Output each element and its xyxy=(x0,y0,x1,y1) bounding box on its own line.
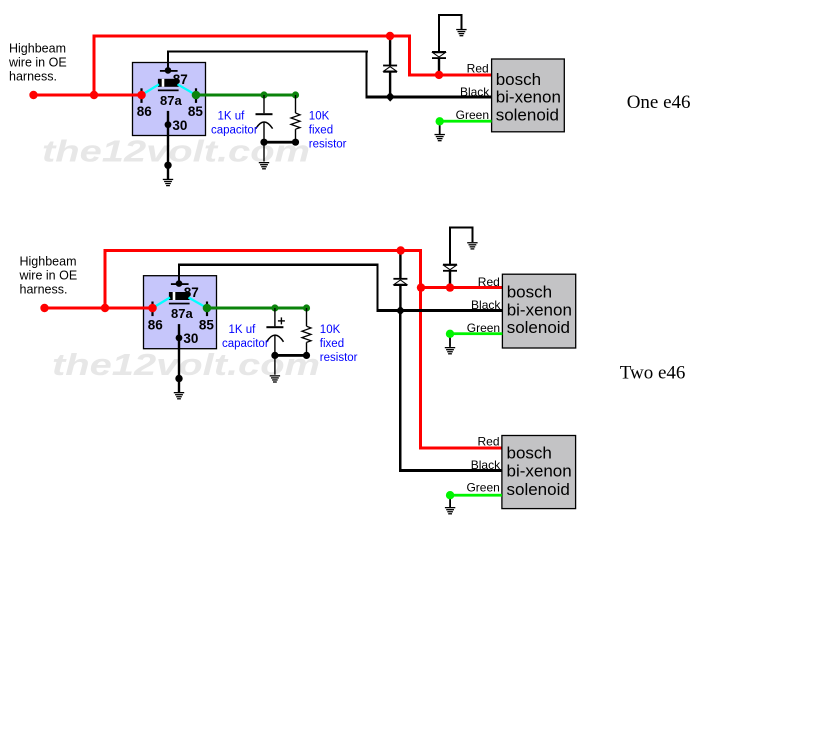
svg-text:86: 86 xyxy=(148,317,164,332)
ground (solenoid green) xyxy=(435,134,445,141)
ground (capacitor 2) xyxy=(270,375,280,382)
resistor R1 (10K) xyxy=(291,95,300,142)
svg-text:harness.: harness. xyxy=(20,283,68,297)
relay pin 87 contact xyxy=(160,67,178,74)
svg-text:85: 85 xyxy=(199,317,215,332)
diode D1 (rail to black lead) xyxy=(383,37,397,94)
svg-text:1K uf: 1K uf xyxy=(218,111,246,123)
bosch bi-xenon solenoid box (two A) xyxy=(502,274,575,348)
wire: red lead into solenoid (Red) xyxy=(408,73,492,76)
wire: black bottom tie capacitor to resistor xyxy=(263,141,297,144)
wire: red lead into solenoid B (Red) xyxy=(419,447,502,450)
svg-text:1K uf: 1K uf xyxy=(229,324,257,336)
ground bracket over diode D4 xyxy=(449,226,474,264)
wire: red lead into solenoid A (Red) xyxy=(419,286,502,289)
relay (section one) xyxy=(133,63,206,136)
node: green terminal (A) xyxy=(446,330,454,338)
relay 2 pin 85 tick xyxy=(206,302,208,317)
cyan link 86 to coil 2 xyxy=(153,298,171,309)
svg-text:10K: 10K xyxy=(320,324,341,336)
ground (capacitor/resistor) xyxy=(259,162,269,169)
svg-text:Green: Green xyxy=(456,108,489,122)
wire: black vertical drop 2 xyxy=(376,264,378,313)
wire: red +12V rail 2 xyxy=(104,249,423,252)
wire: red vertical drop to solenoid red lead xyxy=(408,35,411,77)
svg-text:Highbeam: Highbeam xyxy=(20,255,77,269)
node: capacitor 2 bottom junction xyxy=(271,352,278,359)
svg-text:Red: Red xyxy=(477,435,499,449)
relay pin 86 tick xyxy=(140,88,142,103)
diode D4 (ground to solenoid A red tap) xyxy=(443,264,457,288)
svg-text:harness.: harness. xyxy=(9,70,57,84)
svg-text:capacitor: capacitor xyxy=(211,125,258,137)
svg-text:Red: Red xyxy=(478,275,500,289)
node: resistor 2 bottom junction xyxy=(303,352,310,359)
node: green terminal (B) xyxy=(446,491,454,499)
svg-text:10K: 10K xyxy=(309,111,330,123)
svg-text:Black: Black xyxy=(471,458,501,472)
wire: black vertical down to solenoid B xyxy=(399,311,401,473)
svg-text:bi-xenon: bi-xenon xyxy=(507,300,572,319)
node: capacitor bottom junction xyxy=(260,139,267,146)
wire: black lead into solenoid A (Black) xyxy=(376,309,502,312)
svg-text:fixed: fixed xyxy=(320,338,344,350)
svg-text:30: 30 xyxy=(172,118,187,133)
wire: relay 2 pin 30 down to ground xyxy=(178,324,180,393)
capacitor C1 (1K uf) xyxy=(256,95,273,142)
node: green terminal xyxy=(436,117,444,125)
diode D3 (rail 2 to black lead) xyxy=(393,251,407,307)
wire: black horizontal run xyxy=(167,50,368,52)
ground (top right) xyxy=(456,29,466,36)
relay pin 85 tick xyxy=(195,88,197,103)
wire: green ground lead xyxy=(439,121,441,134)
node: black junction on solenoid A black lead xyxy=(396,306,405,316)
svg-text:87a: 87a xyxy=(160,93,182,108)
wire: black from relay pin 87 up xyxy=(167,50,169,71)
ground (relay pin 30) xyxy=(163,179,173,186)
wire: red vertical drop to both solenoids xyxy=(419,249,422,450)
svg-text:wire in OE: wire in OE xyxy=(19,269,78,283)
label: Highbeam wire in OE harness (lower) xyxy=(19,255,78,297)
node: red junction on solenoid A red lead (diode tap) xyxy=(446,283,454,291)
wire: black bottom tie capacitor 2 to resistor 2 xyxy=(274,354,308,357)
svg-text:fixed: fixed xyxy=(309,125,333,137)
relay coil xyxy=(158,79,179,87)
svg-text:bosch: bosch xyxy=(507,443,552,462)
wire: red feed from highbeam to relay 2 pin 86 xyxy=(43,307,154,310)
wire: black lead into solenoid (Black) xyxy=(365,95,492,98)
cyan link 85 to coil 2 xyxy=(189,298,208,309)
wire: red vertical branch up to +12V rail 2 xyxy=(104,249,107,310)
wire: solenoid B green lead xyxy=(450,494,502,497)
wire: capacitor 2 ground lead xyxy=(274,355,275,374)
ground (solenoid A green) xyxy=(445,347,455,354)
svg-text:solenoid: solenoid xyxy=(496,105,559,124)
ground (section two top) xyxy=(467,242,477,249)
node: pin 86 terminal xyxy=(137,91,146,100)
label: 10K fixed resistor xyxy=(309,111,347,151)
relay (section two) xyxy=(144,276,217,349)
svg-text:Black: Black xyxy=(460,85,490,99)
wire: solenoid green lead xyxy=(440,120,492,123)
node: resistor bottom junction xyxy=(292,139,299,146)
svg-text:One e46: One e46 xyxy=(627,92,691,113)
node: green junction at resistor R1 xyxy=(292,91,299,98)
relay 2 coil xyxy=(169,292,190,300)
diode D2 (ground to solenoid red tap) xyxy=(432,51,446,75)
label: 10K fixed resistor (2) xyxy=(320,324,358,364)
wire: green ground lead (A) xyxy=(449,334,451,347)
svg-text:85: 85 xyxy=(188,104,204,119)
wire: red +12V top rail xyxy=(93,35,412,38)
label: 1K uf capacitor (2) xyxy=(222,324,269,350)
polarity plus sign of C2 xyxy=(278,317,285,324)
node: green junction at capacitor C2 xyxy=(271,304,278,311)
svg-text:the12volt.com: the12volt.com xyxy=(42,134,310,169)
wire: green from relay 2 pin 85 to capacitor/resistor xyxy=(207,307,307,310)
relay 2 pin 87 contact xyxy=(171,280,189,287)
wire: red feed from highbeam to relay pin 86 xyxy=(32,94,142,97)
ground (relay 2 pin 30) xyxy=(174,392,184,399)
node: junction on pin 30 ground wire xyxy=(164,162,171,169)
svg-text:86: 86 xyxy=(137,104,153,119)
wire: green ground lead (B) xyxy=(449,495,451,508)
wire: relay pin 30 down to ground xyxy=(167,111,169,180)
relay 2 pin 87a contact bar xyxy=(169,303,190,305)
ground (solenoid B green) xyxy=(445,507,455,514)
svg-text:30: 30 xyxy=(183,331,198,346)
bosch bi-xenon solenoid box (two B) xyxy=(502,436,576,509)
node: red junction on rail 2 (diode tap) xyxy=(397,246,405,254)
wire: black vertical drop xyxy=(365,50,367,98)
node: red junction on solenoid red lead (diode tap) xyxy=(435,71,443,79)
node: pin 86 terminal (relay 2) xyxy=(148,304,157,313)
ground bracket over diode D2 xyxy=(438,14,463,51)
svg-text:solenoid: solenoid xyxy=(507,318,570,337)
svg-text:resistor: resistor xyxy=(320,352,358,364)
svg-text:solenoid: solenoid xyxy=(507,480,570,499)
svg-text:the12volt.com: the12volt.com xyxy=(52,347,320,382)
node: black junction on solenoid black lead xyxy=(386,92,395,102)
node: pin 30 terminal (relay 2) xyxy=(176,335,183,342)
wire: red vertical branch up to +12V rail xyxy=(93,35,96,97)
wire: solenoid A green lead xyxy=(450,332,503,335)
label: Highbeam wire in OE harness (top) xyxy=(8,42,67,84)
node: red junction on top rail (diode tap) xyxy=(386,32,394,40)
svg-text:bi-xenon: bi-xenon xyxy=(496,88,561,107)
svg-text:capacitor: capacitor xyxy=(222,338,269,350)
node: red source endpoint 2 xyxy=(40,304,48,312)
node: junction on pin 30 ground wire 2 xyxy=(175,375,182,382)
svg-text:87a: 87a xyxy=(171,306,193,321)
node: red junction at vertical branch xyxy=(90,91,98,99)
relay 2 pin 86 tick xyxy=(151,302,153,317)
svg-text:bi-xenon: bi-xenon xyxy=(507,462,572,481)
wire: green from relay pin 85 to capacitor/resistor xyxy=(196,94,296,97)
wire: black horizontal run 2 xyxy=(178,264,379,266)
node: pin 85 terminal (relay 2) xyxy=(203,304,212,313)
node: red junction at vertical branch 2 xyxy=(101,304,109,312)
svg-text:resistor: resistor xyxy=(309,139,347,151)
svg-text:87: 87 xyxy=(184,285,199,300)
bosch bi-xenon solenoid box (one) xyxy=(492,59,565,132)
wire: capacitor ground lead xyxy=(263,142,264,161)
svg-text:87: 87 xyxy=(173,72,188,87)
svg-text:Red: Red xyxy=(467,62,489,76)
resistor R2 (10K) xyxy=(302,308,311,355)
node: green junction at resistor R2 xyxy=(303,304,310,311)
wire: black lead into solenoid B (Black) xyxy=(399,469,502,472)
cyan link 86 to coil xyxy=(142,84,160,95)
relay pin 87a contact bar xyxy=(158,90,179,92)
svg-text:Highbeam: Highbeam xyxy=(9,42,66,56)
capacitor C2 (1K uf) xyxy=(266,308,283,355)
label: 1K uf capacitor xyxy=(211,111,258,137)
svg-text:bosch: bosch xyxy=(496,70,541,89)
node: red junction to solenoid A red xyxy=(417,283,425,291)
svg-text:Black: Black xyxy=(471,298,501,312)
svg-text:wire in OE: wire in OE xyxy=(8,56,67,70)
node: pin 30 terminal xyxy=(165,121,172,128)
svg-text:Two e46: Two e46 xyxy=(620,363,686,384)
node: red source endpoint xyxy=(29,91,37,99)
svg-text:bosch: bosch xyxy=(507,283,552,302)
svg-text:Green: Green xyxy=(466,481,499,495)
node: green junction at capacitor C1 xyxy=(260,91,267,98)
wire: black from relay 2 pin 87 up xyxy=(178,264,180,285)
node: pin 85 terminal xyxy=(192,91,201,100)
cyan link 85 to coil xyxy=(178,84,197,95)
